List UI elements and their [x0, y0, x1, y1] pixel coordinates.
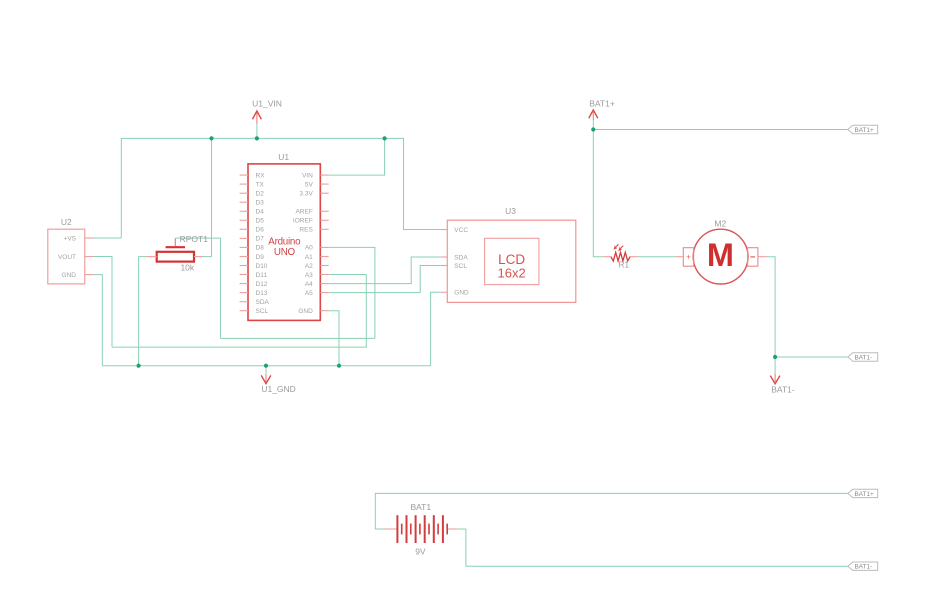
- svg-text:D10: D10: [256, 263, 268, 270]
- wire A4 to U3 SDA: [329, 257, 441, 284]
- net flag BAT1+ top: [589, 99, 615, 120]
- junction node GND rail at U1_GND flag: [264, 364, 268, 368]
- wire GND rail: [102, 365, 430, 367]
- svg-text:D12: D12: [256, 281, 268, 288]
- svg-text:U1_VIN: U1_VIN: [252, 99, 282, 109]
- wire rail A to A0 pin: [329, 247, 375, 338]
- svg-text:A5: A5: [305, 290, 313, 297]
- wire BAT1- flag stem: [774, 357, 776, 374]
- component U3 LCD 16x2: [441, 206, 576, 302]
- svg-text:A4: A4: [305, 281, 313, 288]
- svg-text:BAT1-: BAT1-: [771, 385, 795, 395]
- svg-text:SCL: SCL: [256, 308, 269, 315]
- svg-text:3.3V: 3.3V: [299, 191, 313, 198]
- svg-text:GND: GND: [298, 308, 313, 315]
- svg-text:U3: U3: [505, 206, 516, 216]
- svg-text:TX: TX: [256, 181, 265, 188]
- svg-text:D2: D2: [256, 191, 265, 198]
- svg-text:GND: GND: [62, 272, 77, 279]
- port BAT1- right middle: [848, 353, 878, 362]
- wire RPOT1 left pin to GND rail: [139, 257, 147, 366]
- net flag U1_VIN: [252, 99, 282, 124]
- svg-text:D8: D8: [256, 245, 265, 252]
- junction node BAT1+: [591, 127, 595, 131]
- battery BAT1 9V: [385, 502, 457, 556]
- wire battery positive to port: [375, 493, 848, 529]
- wire rail A: [220, 337, 375, 339]
- wire U1 GND pin to GND rail: [329, 311, 339, 366]
- junction node top rail at U1_VIN flag: [255, 136, 259, 140]
- svg-text:M2: M2: [714, 219, 726, 229]
- wire rail B VOUT to A3: [112, 275, 366, 348]
- wire RPOT1 wiper to rail A: [175, 238, 220, 338]
- svg-text:M: M: [707, 237, 734, 273]
- svg-text:AREF: AREF: [295, 209, 312, 216]
- wire BAT1+ down to R1: [593, 130, 603, 257]
- svg-text:+VS: +VS: [64, 235, 77, 242]
- svg-text:A3: A3: [305, 272, 313, 279]
- wire top rail U1_VIN net: [121, 138, 441, 238]
- svg-text:D13: D13: [256, 290, 268, 297]
- svg-text:D11: D11: [256, 272, 268, 279]
- svg-text:BAT1-: BAT1-: [855, 564, 873, 571]
- wire battery negative to port: [457, 529, 848, 566]
- svg-text:5V: 5V: [305, 181, 314, 188]
- svg-text:VIN: VIN: [302, 172, 313, 179]
- potentiometer RPOT1: [147, 234, 209, 272]
- component U1 Arduino UNO: [240, 152, 329, 320]
- wire BAT1+ flag stem: [592, 120, 594, 130]
- svg-text:RX: RX: [256, 172, 266, 179]
- svg-text:A1: A1: [305, 254, 313, 261]
- svg-text:SDA: SDA: [256, 299, 270, 306]
- junction node top rail at RPOT leg: [209, 136, 213, 140]
- wire BAT1+ rail to port: [593, 129, 848, 131]
- svg-text:D4: D4: [256, 209, 265, 216]
- junction node GND rail at RPOT leg: [137, 364, 141, 368]
- wire VIN pin leg: [329, 138, 385, 175]
- svg-text:10k: 10k: [180, 262, 194, 272]
- svg-text:U1_GND: U1_GND: [261, 384, 295, 394]
- svg-text:A0: A0: [305, 245, 313, 252]
- svg-text:D6: D6: [256, 227, 265, 234]
- svg-text:RES: RES: [299, 227, 313, 234]
- svg-text:RPOT1: RPOT1: [180, 234, 209, 244]
- photoresistor R1: [603, 244, 639, 269]
- svg-text:A2: A2: [305, 263, 313, 270]
- svg-text:9V: 9V: [415, 546, 426, 556]
- junction node BAT1-: [773, 355, 777, 359]
- svg-text:U1: U1: [278, 152, 289, 162]
- svg-text:VOUT: VOUT: [58, 254, 76, 261]
- svg-text:BAT1-: BAT1-: [855, 354, 873, 361]
- svg-text:16x2: 16x2: [497, 266, 525, 281]
- svg-text:U2: U2: [61, 217, 72, 227]
- motor M2: [675, 219, 767, 284]
- wire BAT1- node to port: [775, 356, 848, 358]
- svg-text:UNO: UNO: [274, 247, 296, 258]
- svg-text:GND: GND: [454, 290, 469, 297]
- svg-text:BAT1: BAT1: [410, 502, 431, 512]
- wire U2 GND down leg: [94, 275, 103, 366]
- wire A5 to U3 SCL: [329, 266, 441, 293]
- wire GND rail to U3 GND: [431, 292, 441, 365]
- junction node GND rail at U1 GND leg: [337, 364, 341, 368]
- wire RPOT1 right pin to top rail: [203, 138, 212, 256]
- svg-text:R1: R1: [619, 260, 630, 269]
- component U2 voltage regulator: [48, 217, 94, 284]
- wire U1_GND flag stem: [265, 366, 267, 375]
- svg-text:BAT1+: BAT1+: [589, 99, 615, 109]
- svg-text:BAT1+: BAT1+: [855, 127, 875, 134]
- svg-text:D7: D7: [256, 236, 265, 243]
- svg-text:BAT1+: BAT1+: [855, 491, 875, 498]
- net flag BAT1-: [770, 374, 795, 395]
- svg-text:VCC: VCC: [454, 227, 468, 234]
- svg-text:D3: D3: [256, 200, 265, 207]
- wire U2 VOUT down leg: [94, 257, 113, 348]
- port BAT1- bottom: [848, 562, 878, 571]
- svg-text:SDA: SDA: [454, 254, 468, 261]
- wire R1 to M2: [638, 256, 675, 258]
- svg-text:IOREF: IOREF: [293, 218, 313, 225]
- wire A3 pin: [329, 274, 367, 276]
- wire M2 to BAT1- node: [767, 257, 775, 357]
- svg-text:D5: D5: [256, 218, 265, 225]
- port BAT1+ right top: [848, 125, 878, 134]
- svg-text:D9: D9: [256, 254, 265, 261]
- junction node top rail at VIN leg: [383, 136, 387, 140]
- wire U1_VIN flag stem: [256, 124, 258, 139]
- net flag U1_GND: [261, 374, 296, 394]
- port BAT1+ bottom: [848, 489, 878, 498]
- svg-text:+: +: [686, 253, 691, 262]
- wire U2 +VS to rail: [94, 237, 122, 239]
- svg-text:SCL: SCL: [454, 263, 467, 270]
